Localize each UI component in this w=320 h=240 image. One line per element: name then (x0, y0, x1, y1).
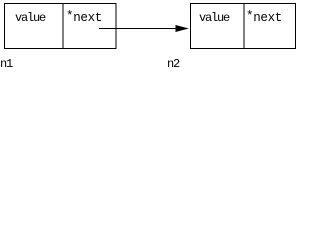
svg-text:value: value (15, 11, 46, 25)
node n2 box (191, 4, 296, 49)
arrowhead pointing to node n2 (176, 25, 189, 32)
wire: arrow shaft from n1.next to n2 (99, 28, 178, 30)
svg-text:value: value (199, 11, 230, 25)
svg-text:*next: *next (66, 10, 102, 26)
node n1 cell divider (62, 4, 64, 49)
svg-text:n2: n2 (167, 57, 180, 71)
node n1 box (5, 4, 117, 49)
node n2 cell divider (243, 4, 245, 49)
svg-text:*next: *next (246, 10, 282, 26)
svg-text:n1: n1 (0, 57, 13, 71)
